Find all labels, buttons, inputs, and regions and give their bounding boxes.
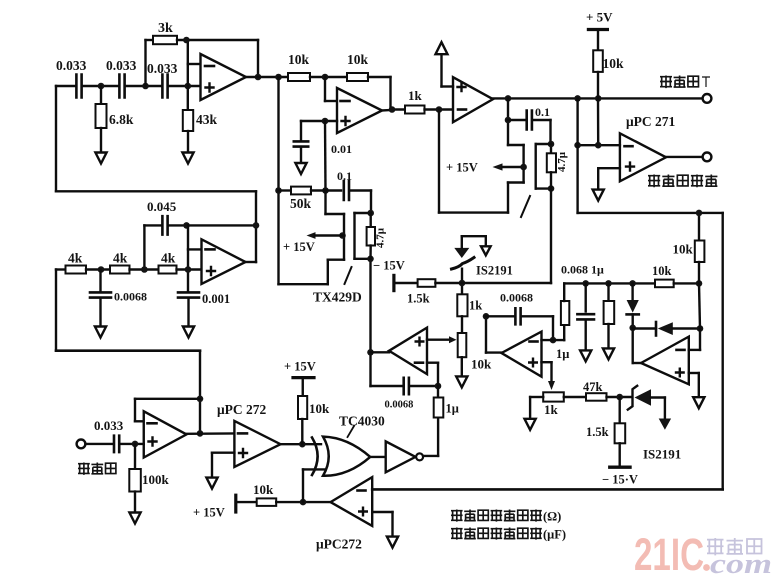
svg-text:TC4030: TC4030	[339, 414, 385, 429]
svg-text:3k: 3k	[158, 21, 173, 36]
svg-text:+ 15V: + 15V	[446, 161, 478, 175]
svg-text:47k: 47k	[583, 380, 603, 394]
svg-text:0.033: 0.033	[147, 61, 178, 76]
svg-text:0.01: 0.01	[331, 142, 352, 156]
svg-text:10k: 10k	[652, 264, 672, 278]
svg-text:10k: 10k	[347, 52, 369, 67]
svg-text:1.5k: 1.5k	[586, 425, 609, 439]
svg-text:− 15V: − 15V	[373, 259, 405, 273]
svg-text:(μF): (μF)	[543, 528, 566, 542]
svg-text:4k: 4k	[68, 251, 83, 266]
svg-text:10k: 10k	[253, 482, 274, 497]
svg-text:0.0068: 0.0068	[500, 291, 533, 305]
svg-text:1k: 1k	[469, 299, 482, 313]
svg-text:6.8k: 6.8k	[109, 112, 134, 127]
svg-text:+ 15V: + 15V	[284, 360, 316, 374]
svg-text:10k: 10k	[309, 401, 330, 416]
svg-text:10k: 10k	[673, 242, 694, 257]
svg-text:10k: 10k	[288, 52, 310, 67]
svg-text:1μ: 1μ	[446, 402, 459, 416]
svg-text:TX429D: TX429D	[313, 290, 362, 305]
svg-text:4.7μ: 4.7μ	[375, 227, 387, 248]
svg-text:21IC: 21IC	[634, 529, 704, 580]
svg-text:4k: 4k	[113, 251, 128, 266]
svg-text:0.045: 0.045	[147, 199, 177, 214]
svg-text:(Ω): (Ω)	[543, 510, 561, 524]
svg-text:100k: 100k	[142, 472, 170, 487]
svg-text:4.7μ: 4.7μ	[556, 151, 568, 172]
svg-text:0.033: 0.033	[56, 58, 87, 73]
svg-text:0.033: 0.033	[94, 418, 124, 433]
svg-text:+ 15V: + 15V	[283, 240, 315, 254]
svg-text:4k: 4k	[161, 251, 176, 266]
svg-text:+ 15V: + 15V	[193, 506, 225, 520]
svg-text:0.068 1μ: 0.068 1μ	[561, 263, 604, 277]
svg-text:0.033: 0.033	[106, 58, 137, 73]
svg-text:0.0068: 0.0068	[114, 290, 147, 304]
svg-text:1k: 1k	[408, 88, 423, 103]
svg-text:μPC 272: μPC 272	[217, 402, 267, 417]
svg-text:1.5k: 1.5k	[407, 292, 430, 306]
svg-text:μPC272: μPC272	[316, 537, 362, 552]
svg-text:1k: 1k	[544, 402, 559, 417]
svg-text:IS2191: IS2191	[643, 447, 681, 462]
svg-text:− 15·V: − 15·V	[602, 473, 638, 487]
svg-text:0.0068: 0.0068	[385, 400, 414, 411]
svg-text:+ 5V: + 5V	[586, 10, 613, 25]
svg-text:μPC 271: μPC 271	[626, 114, 676, 129]
svg-text:50k: 50k	[290, 196, 312, 211]
svg-text:43k: 43k	[196, 112, 218, 127]
svg-text:1μ: 1μ	[556, 347, 569, 361]
svg-text:10k: 10k	[471, 357, 492, 372]
svg-text:0.001: 0.001	[202, 292, 230, 306]
svg-text:10k: 10k	[603, 56, 625, 71]
svg-text:com: com	[710, 548, 772, 580]
svg-text:IS2191: IS2191	[476, 264, 513, 278]
svg-text:0.1: 0.1	[337, 169, 352, 183]
svg-text:0.1: 0.1	[535, 105, 550, 119]
